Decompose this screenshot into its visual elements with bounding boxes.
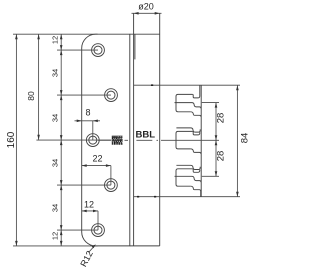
center line y=140.3 <box>98 139 219 141</box>
barrel left lines <box>134 13 135 246</box>
inter line 1-2 <box>176 128 200 132</box>
chain arrows <box>60 34 63 39</box>
8 dim arrows (outside) <box>77 120 82 123</box>
knuckle line tick marks <box>137 85 156 197</box>
plate/barrel top edge <box>130 33 160 35</box>
top extension line <box>13 33 98 35</box>
bottom extension line <box>13 245 98 247</box>
knuckle bottom line + 84 extension <box>134 196 240 198</box>
R12 leader <box>89 245 96 252</box>
arrowheads <box>15 12 239 248</box>
hole H3 <box>86 134 99 147</box>
knuckle module 2 box <box>176 131 192 149</box>
dim o20 <box>132 12 162 14</box>
module 3 pocket <box>192 169 200 173</box>
module 2 bottom step <box>191 149 201 154</box>
dim 12 (bottom) <box>82 211 98 230</box>
84 arrows <box>236 85 239 90</box>
tab cross line c3 <box>202 175 219 177</box>
module 3 cross step <box>175 176 202 182</box>
inter line 2-3 <box>176 165 200 169</box>
plate/barrel bottom edge <box>130 245 160 247</box>
module 1 cross step <box>175 103 202 109</box>
hole H2 <box>105 89 118 102</box>
chain dim line <box>60 34 62 246</box>
dim 8 <box>75 120 101 122</box>
160 arrows <box>15 34 18 39</box>
hole H5 <box>92 224 105 237</box>
barrel right edge / frame part left edge <box>159 13 161 246</box>
logo block <box>112 136 123 145</box>
knuckle module 1 box <box>176 94 192 111</box>
hole extension lines <box>57 49 98 51</box>
dim 160 line <box>15 34 17 246</box>
thin lines: extensions, centerlines, dims <box>13 13 237 252</box>
dim 80 line <box>38 34 40 140</box>
module 2 pocket <box>192 131 200 135</box>
dim 22 <box>82 166 111 186</box>
knuckle top line + 84 extension <box>134 84 240 86</box>
module 1 pocket <box>192 85 200 98</box>
dimension texts (HTML for grayscale AA) <box>138 3 154 12</box>
hole H1 <box>92 44 105 57</box>
knuckle module 3 box <box>176 169 192 186</box>
o20 arrows <box>134 12 139 15</box>
R12 leader arrow <box>92 244 96 248</box>
dim 28 line <box>215 103 217 177</box>
frame part right edge <box>200 85 202 197</box>
module 3 bottom step <box>191 186 201 197</box>
80 arrows <box>37 34 40 39</box>
plate outline (face view of hinge leaf) <box>82 34 130 246</box>
module 1 bottom step <box>191 112 201 117</box>
dim 84 line <box>236 85 238 197</box>
22 arrows (inside, outward) <box>82 164 87 167</box>
12 arrows (inside, outward) <box>82 210 87 213</box>
28 arrows <box>215 103 218 108</box>
hole H4 <box>105 179 118 192</box>
tab cross line c1 <box>202 102 219 104</box>
